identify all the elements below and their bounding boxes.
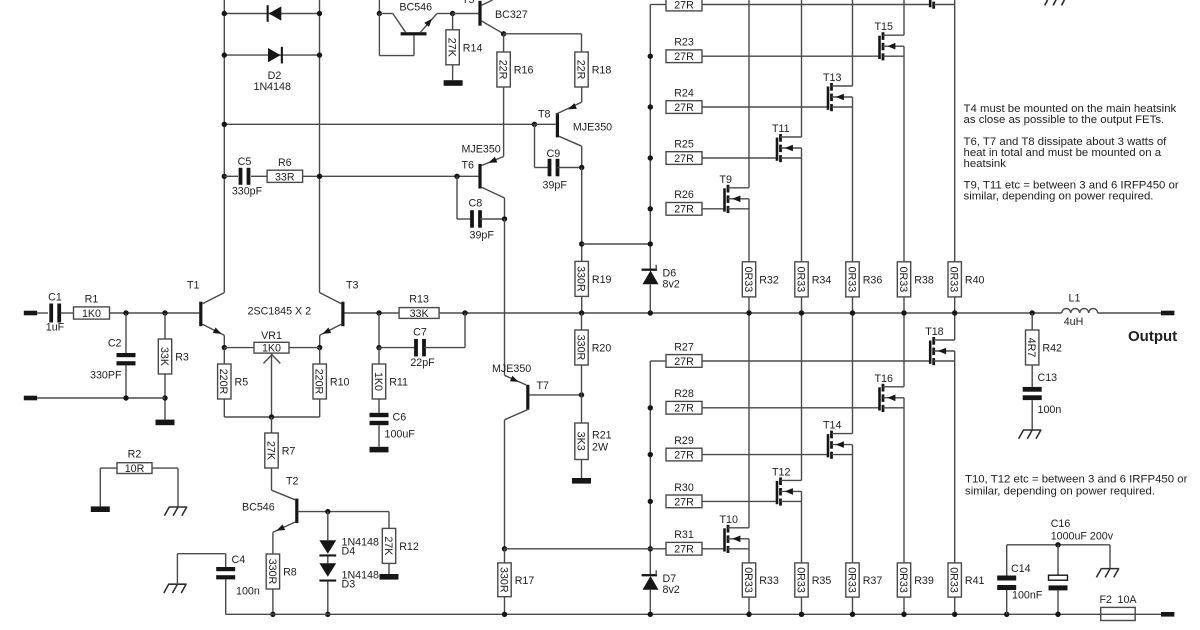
- resistor R38 0R33: [897, 262, 910, 297]
- node D7/bottom rail: [648, 612, 653, 617]
- svg-text:R19: R19: [592, 274, 612, 286]
- wire to R7: [271, 417, 273, 433]
- resistor R19 330R: [575, 261, 588, 296]
- svg-text:T14: T14: [823, 420, 841, 432]
- svg-text:T18: T18: [925, 326, 943, 338]
- node T8 base / C9: [532, 122, 537, 127]
- wire VR1 right: [289, 347, 320, 349]
- node gate rail / R28: [648, 405, 653, 410]
- wire C7 right leg: [464, 313, 466, 348]
- svg-text:R36: R36: [863, 275, 883, 287]
- svg-text:R20: R20: [592, 343, 612, 355]
- resistor R23 27R: [666, 37, 702, 64]
- node R36/main rail: [850, 310, 855, 315]
- svg-text:BC546: BC546: [399, 1, 432, 13]
- svg-text:27R: 27R: [674, 153, 694, 165]
- node R17/bottom rail: [502, 612, 507, 617]
- svg-text:T8: T8: [538, 109, 551, 121]
- wire R18 to T8 emitter: [581, 87, 583, 102]
- svg-text:100uF: 100uF: [385, 429, 416, 441]
- svg-text:C2: C2: [108, 337, 122, 349]
- wire R33 to bottom rail: [748, 597, 750, 614]
- svg-text:27R: 27R: [674, 450, 694, 462]
- zener diode D7 8v2: [642, 570, 680, 614]
- node gate rail / R29: [648, 452, 653, 457]
- wire R11 top: [378, 348, 380, 364]
- resistor R40 0R33: [948, 262, 961, 297]
- svg-text:R40: R40: [965, 275, 985, 287]
- svg-text:27R: 27R: [674, 0, 694, 11]
- inductor L1 4uH: [1062, 293, 1098, 328]
- svg-text:1K0: 1K0: [82, 308, 101, 320]
- svg-text:R26: R26: [674, 189, 694, 201]
- svg-text:R42: R42: [1042, 343, 1062, 355]
- resistor R42 4R7: [1026, 330, 1039, 365]
- svg-text:22pF: 22pF: [410, 357, 435, 369]
- svg-text:R16: R16: [514, 65, 534, 77]
- svg-text:0R33: 0R33: [897, 267, 909, 293]
- node wiper/tail junction: [269, 414, 274, 419]
- svg-text:27K: 27K: [446, 38, 458, 58]
- wire C2 to lower input line: [125, 365, 127, 398]
- svg-text:R28: R28: [674, 388, 694, 400]
- node R37/bottom rail: [850, 612, 855, 617]
- svg-text:R39: R39: [914, 575, 934, 587]
- svg-text:0R33: 0R33: [845, 567, 857, 593]
- node gate rail / R23: [648, 54, 653, 59]
- svg-text:2SC1845 X 2: 2SC1845 X 2: [248, 306, 312, 318]
- svg-text:0R33: 0R33: [948, 267, 960, 293]
- svg-text:similar, depending on power re: similar, depending on power required.: [964, 191, 1154, 203]
- node T4 collector junction: [377, 11, 382, 16]
- node R34/main rail: [799, 310, 804, 315]
- wire gate R24 to T13: [702, 106, 828, 108]
- svg-text:R34: R34: [812, 275, 832, 287]
- node x224 C5 junction: [222, 174, 227, 179]
- wire C5 to R6: [251, 175, 267, 177]
- svg-text:0R33: 0R33: [742, 267, 754, 293]
- svg-text:R35: R35: [812, 575, 832, 587]
- svg-text:10A: 10A: [1118, 594, 1138, 606]
- node R39/bottom rail: [901, 612, 906, 617]
- resistor R21 3K3 2W: [574, 423, 611, 460]
- wire C6 to ground: [378, 425, 380, 447]
- svg-text:27R: 27R: [674, 496, 694, 508]
- wire R42 to C13: [1031, 365, 1033, 387]
- svg-text:27R: 27R: [674, 403, 694, 415]
- wire T1 collector rail (x=224): [223, 0, 225, 293]
- wire R6 to T6 base: [303, 175, 479, 177]
- wire R34 to main rail: [801, 297, 803, 313]
- note text T4 heatsink: [964, 103, 1177, 126]
- svg-text:1N4148: 1N4148: [254, 81, 291, 93]
- note text T10 T12 IRFP450: [965, 474, 1188, 498]
- wire R11 to C6: [378, 399, 380, 413]
- svg-text:C16: C16: [1051, 518, 1071, 530]
- svg-text:Output: Output: [1128, 328, 1177, 345]
- svg-text:F2: F2: [1100, 594, 1113, 606]
- node C16 / bottom rail: [1055, 612, 1060, 617]
- svg-text:27R: 27R: [674, 204, 694, 216]
- node T7 collector / R17 / lower gate rail: [502, 546, 507, 551]
- resistor R7 27K: [265, 433, 278, 468]
- svg-text:R5: R5: [235, 377, 249, 389]
- node R3/input-return junction: [162, 395, 167, 400]
- svg-text:220R: 220R: [313, 369, 325, 395]
- node gate rail / R25: [648, 155, 653, 160]
- svg-text:T13: T13: [823, 72, 841, 84]
- node R41/bottom rail: [952, 612, 957, 617]
- transistor T11 (IRFP450 output MOSFET): [772, 0, 802, 262]
- transistor T9 (IRFP450 output MOSFET): [720, 0, 750, 262]
- svg-text:T12: T12: [772, 466, 790, 478]
- node R19/R20/main rail: [579, 310, 584, 315]
- wire gate R31 to T10: [702, 548, 725, 550]
- svg-text:0R33: 0R33: [794, 567, 806, 593]
- wire T8 collector to R19 node: [581, 168, 583, 262]
- transistor T12 (IRFP450 output MOSFET): [772, 313, 802, 563]
- svg-text:2W: 2W: [592, 442, 609, 454]
- wire T8 collector down: [581, 146, 583, 167]
- wire T8 base: [535, 123, 556, 125]
- wire node to R16: [503, 34, 505, 52]
- svg-text:R11: R11: [389, 377, 408, 389]
- svg-text:R12: R12: [399, 541, 419, 553]
- wire R21 to ground: [581, 460, 583, 479]
- note text T6 T7 T8 heatsink: [964, 136, 1168, 170]
- node T2 base / D4: [325, 509, 330, 514]
- wire T3 base to feedback node: [345, 312, 400, 314]
- ground (C6): [370, 447, 389, 453]
- node C7 left / R11 top: [376, 345, 381, 350]
- svg-text:3K3: 3K3: [574, 432, 586, 451]
- resistor R26 27R: [666, 189, 702, 216]
- wire lower gate rail: [650, 361, 666, 574]
- diode D3 1N4148: [319, 557, 379, 615]
- svg-text:27R: 27R: [674, 102, 694, 114]
- svg-text:27R: 27R: [674, 544, 694, 556]
- capacitor C7 22pF: [379, 327, 465, 369]
- svg-text:4uH: 4uH: [1064, 316, 1084, 328]
- wire long rail to T8 base (y=124): [224, 123, 534, 125]
- node R8/bottom rail: [270, 612, 275, 617]
- resistor R11 1K0: [372, 364, 385, 399]
- node gate rail / R19 feed: [648, 241, 653, 246]
- svg-text:R31: R31: [674, 529, 694, 541]
- svg-text:R23: R23: [674, 37, 694, 49]
- wire gate R25 to T11: [702, 157, 777, 159]
- transistor T16 (IRFP450 output MOSFET): [875, 313, 905, 563]
- capacitor C1 1uF: [46, 292, 65, 334]
- node T1 emitter / VR1 / R5: [222, 345, 227, 350]
- resistor R28 27R: [666, 388, 702, 415]
- node R35/bottom rail: [799, 612, 804, 617]
- transistor T15 (IRFP450 output MOSFET): [875, 0, 905, 262]
- chassis ground (R2 right): [164, 507, 187, 516]
- node D1 left: [222, 11, 227, 16]
- svg-text:0R33: 0R33: [948, 567, 960, 593]
- node x224 y124 junction: [222, 122, 227, 127]
- wire VAS rail down (x=504): [504, 219, 506, 375]
- resistor R41 0R33: [948, 563, 961, 597]
- svg-text:39pF: 39pF: [543, 180, 568, 192]
- svg-text:R14: R14: [463, 42, 483, 54]
- svg-text:R29: R29: [674, 435, 694, 447]
- svg-text:0R33: 0R33: [794, 267, 806, 293]
- svg-text:100nF: 100nF: [1012, 590, 1043, 602]
- svg-text:L1: L1: [1069, 293, 1081, 305]
- svg-text:C9: C9: [547, 148, 561, 160]
- resistor R32 0R33: [742, 262, 755, 297]
- wire R2 right to chassis: [152, 468, 178, 507]
- svg-text:R21: R21: [592, 430, 612, 442]
- wire R1 to T1 base: [110, 312, 200, 314]
- node T6 collector / C8: [502, 216, 507, 221]
- wire T3 collector rail (x=319): [319, 0, 321, 293]
- resistor R17 330R: [498, 563, 511, 597]
- svg-text:heatsink: heatsink: [964, 158, 1007, 170]
- svg-text:330R: 330R: [574, 335, 586, 361]
- input terminal (signal): [24, 311, 37, 316]
- ground (R21): [572, 478, 591, 484]
- node gate rail / R211: [648, 546, 653, 551]
- wire top feed (x=379): [378, 0, 380, 14]
- node R1/R3 junction: [162, 310, 167, 315]
- node R33/bottom rail: [746, 612, 751, 617]
- node R1/C2 junction: [123, 310, 128, 315]
- svg-text:R3: R3: [175, 352, 189, 364]
- transistor T1 (2SC1845): [187, 280, 224, 336]
- wire VR1 left: [224, 347, 254, 349]
- svg-text:as close as possible to the ou: as close as possible to the output FETs.: [964, 114, 1165, 126]
- svg-text:4R7: 4R7: [1025, 338, 1037, 358]
- wire gate R27 to T18: [702, 360, 930, 362]
- wire tail connector: [224, 416, 319, 418]
- wire R42 top: [1031, 313, 1033, 330]
- resistor R6 33R: [267, 170, 303, 182]
- resistor R13 33K: [399, 308, 439, 319]
- node D1 right: [317, 11, 322, 16]
- svg-text:VR1: VR1: [261, 330, 282, 342]
- svg-text:R1: R1: [85, 294, 99, 306]
- wire gate R26 to T9: [702, 208, 725, 210]
- resistor R34 0R33: [795, 262, 808, 297]
- transistor T5 (BC327): [462, 0, 528, 34]
- resistor R35 0R33: [795, 563, 808, 597]
- wire gate R22 to T17: [702, 4, 930, 6]
- wire C14 bottom: [1006, 590, 1008, 614]
- node T5 emitter / R16 / R18: [501, 31, 506, 36]
- svg-text:27R: 27R: [674, 51, 694, 63]
- wire T1 emitter down: [223, 335, 225, 347]
- diode D2 1N4148 (pointing right): [224, 47, 319, 93]
- resistor R37 0R33: [846, 563, 859, 597]
- wire C14 top loop: [1007, 545, 1110, 576]
- chassis ground (C16): [1096, 569, 1119, 578]
- wire R38 to main rail: [903, 297, 905, 313]
- wire to T5 base: [453, 13, 479, 15]
- svg-text:D2: D2: [268, 70, 282, 82]
- svg-text:0R33: 0R33: [845, 267, 857, 293]
- svg-text:C8: C8: [469, 198, 483, 210]
- wire to upper gate rail: [582, 243, 651, 245]
- transistor T13 (IRFP450 output MOSFET): [823, 0, 853, 262]
- svg-text:220R: 220R: [217, 369, 229, 395]
- resistor R24 27R: [666, 87, 702, 114]
- svg-text:C14: C14: [1011, 563, 1031, 575]
- svg-text:33R: 33R: [275, 171, 295, 183]
- wire R16 to T6 emitter: [503, 87, 505, 157]
- wire to C5: [224, 175, 238, 177]
- wire R10 top: [319, 348, 321, 364]
- resistor R25 27R: [666, 138, 702, 165]
- fuse F2 10A: [1100, 594, 1138, 621]
- wire R14 top: [452, 14, 454, 30]
- wire T3 emitter down: [319, 335, 321, 347]
- wire R19 bottom to main rail: [581, 296, 583, 313]
- svg-text:22R: 22R: [574, 60, 586, 80]
- node R32/main rail: [746, 310, 751, 315]
- transistor T10 (IRFP450 output MOSFET): [720, 313, 750, 563]
- node C16 / top loop: [1055, 542, 1060, 547]
- svg-text:330pF: 330pF: [232, 186, 263, 198]
- wire R2 left to ground: [100, 468, 117, 506]
- capacitor C6 100uF: [370, 412, 416, 441]
- svg-text:330R: 330R: [497, 567, 509, 593]
- wire C1 to R1: [61, 312, 73, 314]
- node R14 top junction: [450, 11, 455, 16]
- svg-text:T9: T9: [720, 174, 733, 186]
- wire R13 right to main rail: [439, 312, 1062, 314]
- node gate rail / R26: [648, 206, 653, 211]
- node R19 top / zener feed: [579, 241, 584, 246]
- node T8 collector / C9: [579, 165, 584, 170]
- svg-text:39pF: 39pF: [470, 230, 495, 242]
- wire R20 to T7 base node: [581, 365, 583, 395]
- capacitor C5 330pF: [232, 156, 263, 198]
- transistor T17 (IRFP450 output MOSFET): [930, 0, 955, 262]
- svg-text:T2: T2: [286, 476, 299, 488]
- wire gate R29 to T14: [702, 454, 828, 456]
- capacitor C9 39pF: [535, 124, 582, 191]
- node D3/bottom rail: [325, 612, 330, 617]
- resistor R14 27K: [446, 30, 459, 65]
- svg-text:R13: R13: [409, 294, 429, 306]
- wire input return line: [37, 397, 165, 399]
- svg-text:R10: R10: [330, 377, 350, 389]
- resistor R36 0R33: [846, 262, 859, 297]
- transistor T14 (IRFP450 output MOSFET): [823, 313, 853, 563]
- wire T5 emitter node to R18: [504, 34, 582, 52]
- wire C4 to bottom rail: [225, 579, 227, 614]
- svg-text:33K: 33K: [410, 308, 430, 320]
- node T7 base / R20 / R21: [579, 392, 584, 397]
- wire L1 to output terminal: [1098, 312, 1161, 314]
- wire F2 to V- terminal: [1135, 613, 1161, 615]
- resistor R18 22R: [575, 52, 588, 87]
- ground (R14): [444, 80, 463, 86]
- wire R39 to bottom rail: [903, 597, 905, 614]
- svg-text:R30: R30: [674, 482, 694, 494]
- node R13/C7 right junction: [462, 310, 467, 315]
- svg-text:R37: R37: [863, 575, 883, 587]
- wire R17 top: [504, 549, 506, 563]
- svg-text:T11: T11: [772, 123, 790, 135]
- potentiometer VR1 1K0: [254, 330, 289, 363]
- svg-text:R2: R2: [128, 449, 142, 461]
- output terminal: [1161, 311, 1174, 316]
- svg-text:T10: T10: [720, 514, 738, 526]
- resistor R39 0R33: [897, 563, 910, 597]
- node R38/main rail: [901, 310, 906, 315]
- svg-text:C5: C5: [238, 156, 252, 168]
- wire R35 to bottom rail: [801, 597, 803, 614]
- svg-text:C13: C13: [1038, 372, 1058, 384]
- input return terminal: [24, 396, 37, 401]
- svg-text:T6: T6: [462, 160, 475, 172]
- chassis ground (top right, cut off): [1045, 0, 1065, 5]
- wire R3 top: [164, 313, 166, 339]
- wire R10 bottom: [319, 399, 321, 417]
- svg-text:R41: R41: [965, 575, 985, 587]
- note text T9 T11 IRFP450: [964, 180, 1179, 203]
- transistor T18 (IRFP450 output MOSFET): [925, 313, 955, 563]
- transistor T6 (MJE350): [462, 144, 505, 199]
- svg-text:27K: 27K: [382, 536, 394, 556]
- chassis ground (C4): [164, 584, 187, 593]
- node T6 base / C8: [454, 174, 459, 179]
- svg-text:R17: R17: [515, 575, 535, 587]
- wire R12 to ground: [388, 563, 390, 574]
- svg-text:C4: C4: [232, 554, 246, 566]
- wire R3 bottom to ground: [164, 374, 166, 420]
- svg-text:0R33: 0R33: [897, 567, 909, 593]
- wire gate R23 to T15: [702, 55, 880, 57]
- node gate rail / R210: [648, 499, 653, 504]
- diode D1 (1N4148, pointing left): [224, 5, 319, 22]
- capacitor C2 330PF: [90, 337, 136, 381]
- capacitor C8 39pF: [457, 176, 505, 241]
- svg-text:27K: 27K: [264, 441, 276, 461]
- wire gate R30 to T12: [702, 500, 777, 502]
- svg-text:T16: T16: [875, 373, 893, 385]
- node C2/return junction: [123, 395, 128, 400]
- svg-text:R27: R27: [674, 341, 694, 353]
- wire down to C2: [125, 313, 127, 353]
- svg-text:8v2: 8v2: [663, 584, 680, 596]
- svg-text:BC546: BC546: [242, 502, 275, 514]
- resistor R30 27R: [666, 482, 702, 509]
- svg-text:22R: 22R: [497, 60, 509, 80]
- wire chassis to C4: [177, 554, 225, 585]
- wire R20 top: [581, 313, 583, 330]
- svg-text:1K0: 1K0: [372, 372, 384, 391]
- svg-text:T5: T5: [462, 0, 475, 6]
- svg-text:R18: R18: [592, 65, 612, 77]
- ground (R12): [380, 574, 399, 580]
- svg-text:T10, T12 etc = between 3 and 6: T10, T12 etc = between 3 and 6 IRFP450 o…: [965, 474, 1188, 486]
- ground (R2 left): [91, 506, 110, 512]
- svg-text:BC327: BC327: [495, 9, 528, 21]
- resistor R8 330R: [266, 554, 279, 589]
- wire upper gate rail (x=650): [650, 5, 666, 269]
- svg-text:330R: 330R: [266, 559, 278, 585]
- diode D4 1N4148: [319, 512, 379, 558]
- svg-text:330R: 330R: [575, 266, 587, 292]
- svg-text:C6: C6: [393, 412, 407, 424]
- svg-text:R38: R38: [914, 275, 934, 287]
- svg-text:R33: R33: [759, 575, 779, 587]
